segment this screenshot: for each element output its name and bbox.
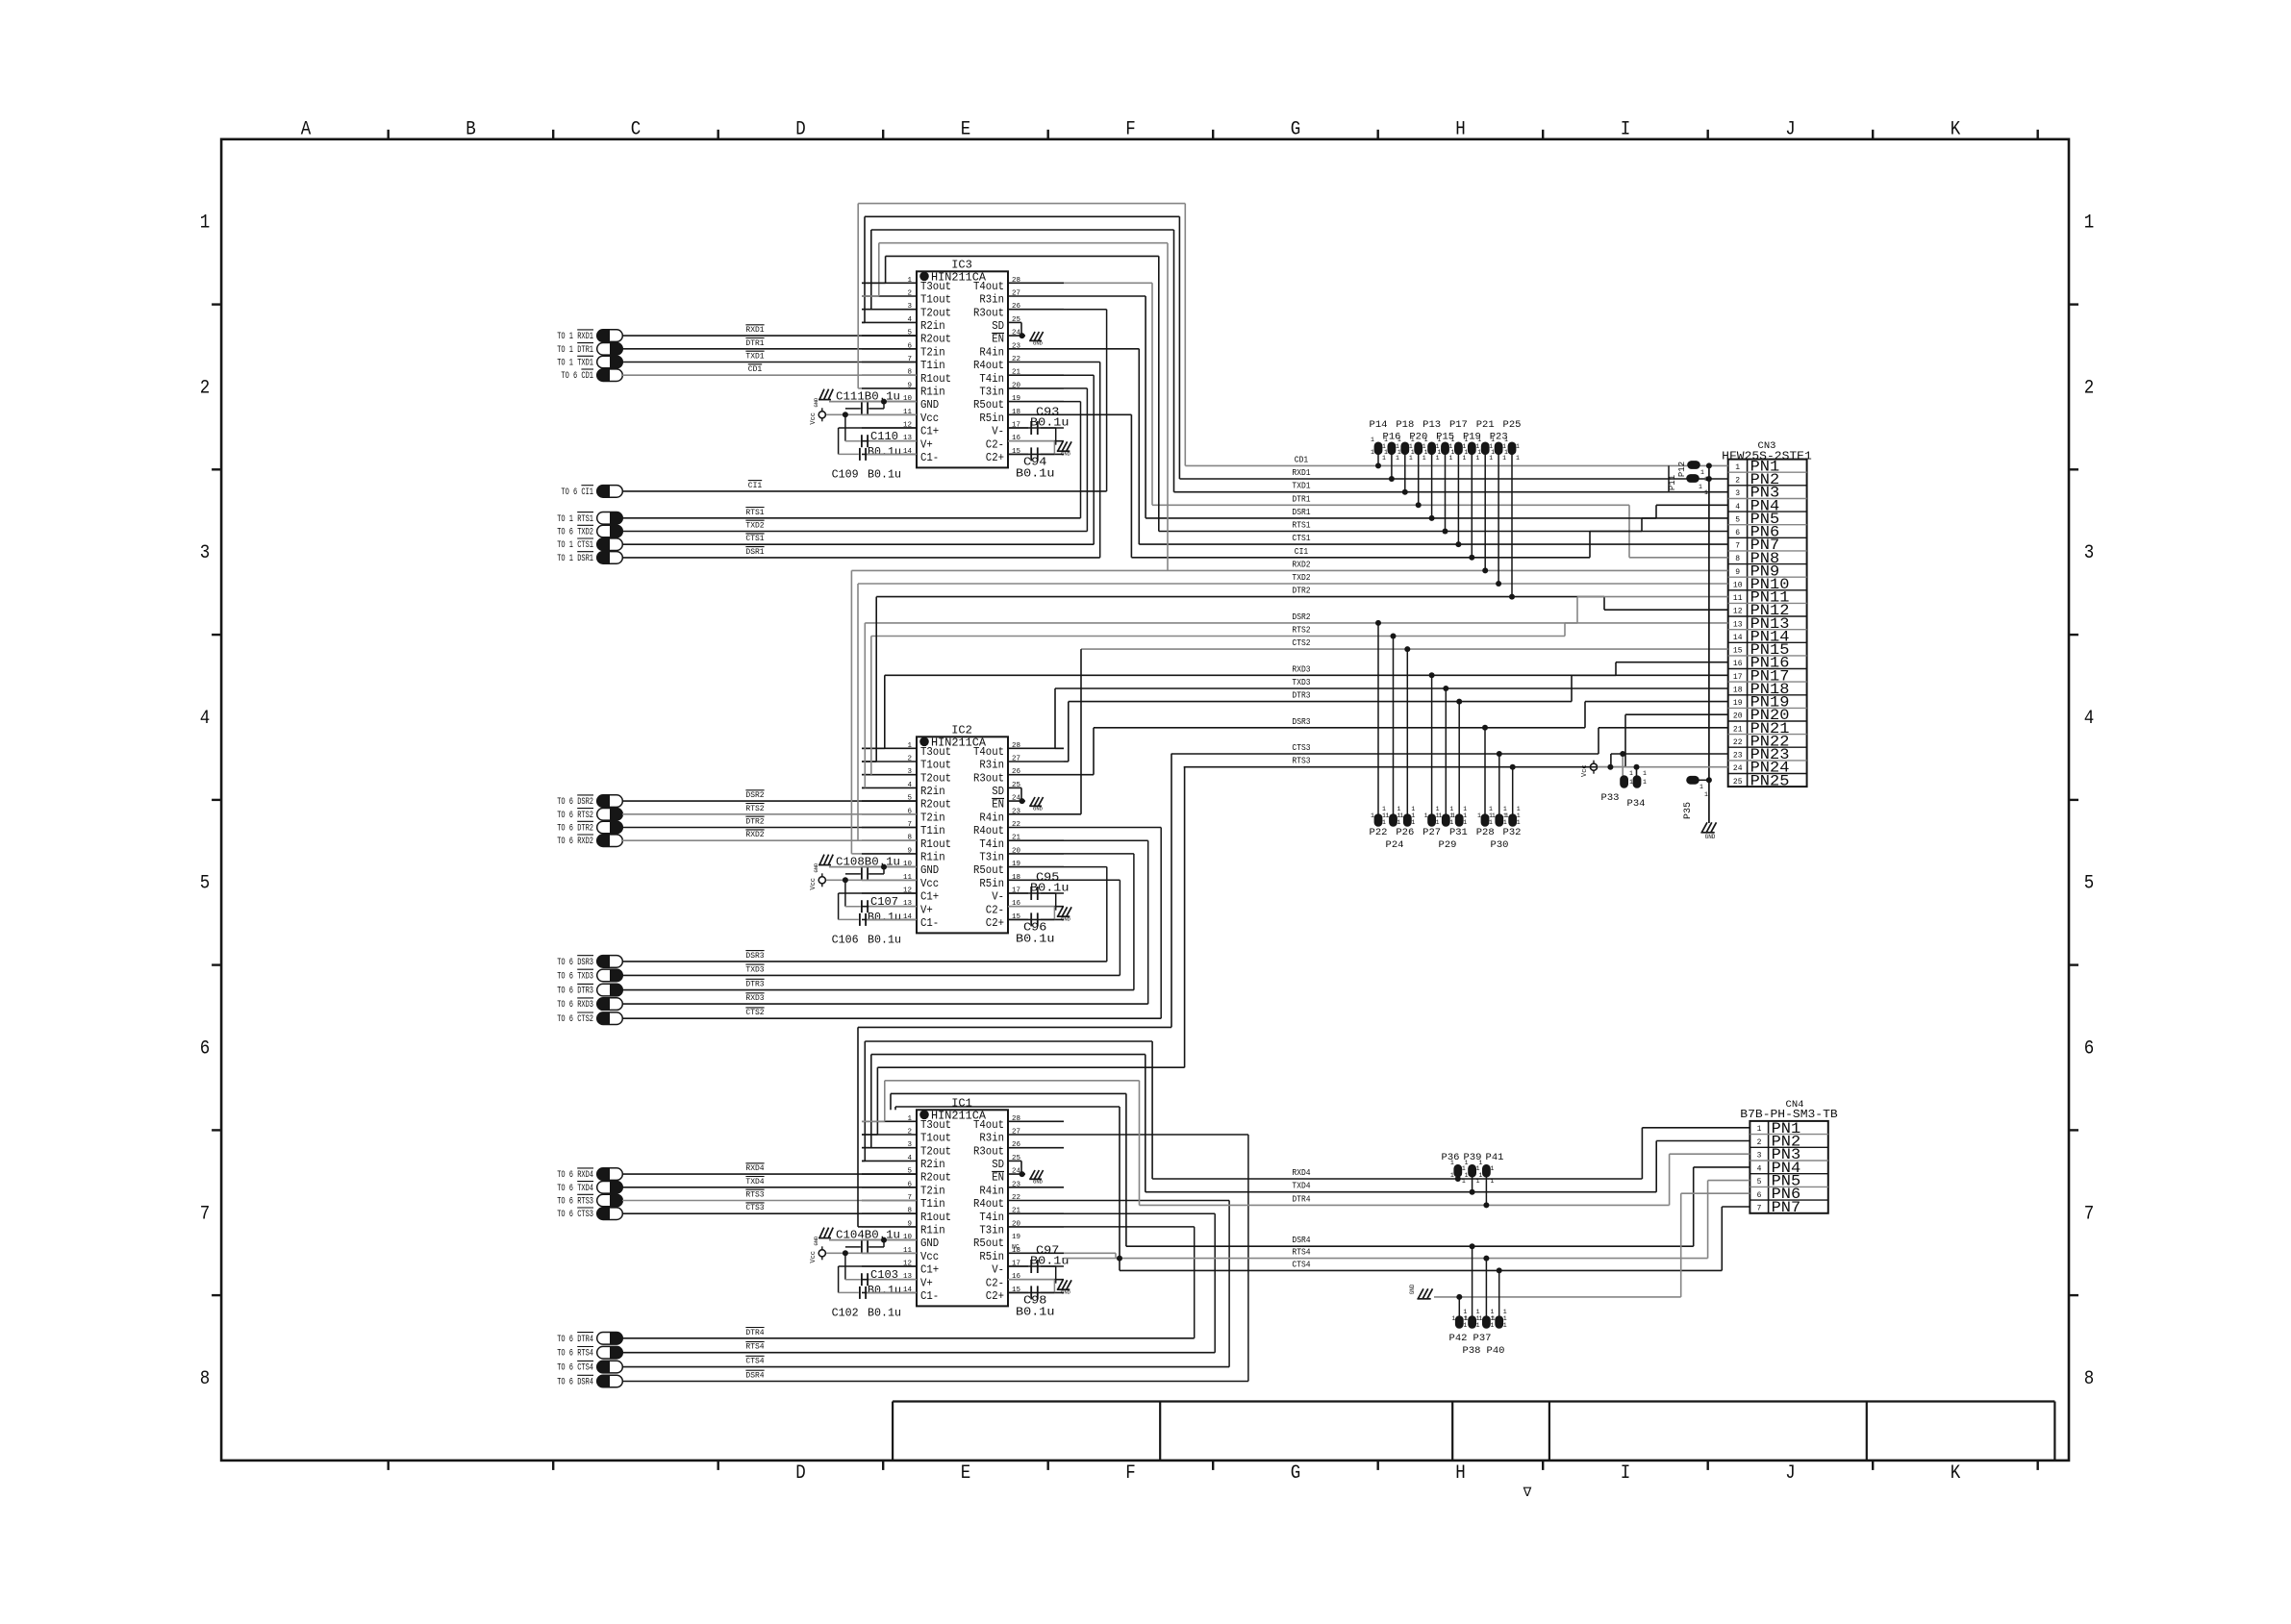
svg-text:T2in: T2in — [920, 1184, 945, 1197]
svg-text:TO 6 CI1: TO 6 CI1 — [561, 487, 593, 498]
svg-text:GND: GND — [1409, 1284, 1416, 1294]
svg-text:DSR2: DSR2 — [745, 791, 764, 800]
svg-text:C1+: C1+ — [920, 1263, 939, 1277]
svg-text:K: K — [1951, 119, 1961, 141]
svg-text:4: 4 — [907, 782, 912, 789]
svg-text:1: 1 — [2084, 212, 2095, 235]
svg-text:1: 1 — [1463, 806, 1467, 812]
svg-text:V-: V- — [992, 890, 1004, 904]
svg-text:R3in: R3in — [979, 1132, 1004, 1145]
svg-text:Vcc: Vcc — [810, 1251, 818, 1263]
svg-text:F: F — [1125, 1462, 1136, 1485]
svg-text:1: 1 — [1382, 455, 1386, 462]
svg-text:K: K — [1951, 1462, 1961, 1485]
svg-text:P32: P32 — [1503, 827, 1522, 838]
svg-text:C108B0.1u: C108B0.1u — [836, 857, 900, 869]
svg-text:9: 9 — [907, 1220, 912, 1228]
svg-text:5: 5 — [2084, 873, 2095, 895]
svg-text:R4out: R4out — [973, 824, 1004, 837]
svg-text:1: 1 — [1449, 455, 1453, 462]
svg-text:1: 1 — [1449, 819, 1453, 826]
svg-text:18: 18 — [1733, 687, 1743, 695]
svg-text:C: C — [631, 119, 642, 141]
svg-text:1: 1 — [1438, 812, 1442, 819]
svg-text:9: 9 — [1735, 568, 1740, 577]
svg-text:GND: GND — [1033, 340, 1044, 347]
svg-text:14: 14 — [1733, 634, 1743, 642]
svg-text:GND: GND — [813, 1236, 819, 1246]
svg-text:T2in: T2in — [920, 345, 945, 359]
svg-text:1: 1 — [1462, 1165, 1466, 1172]
svg-text:P38: P38 — [1463, 1345, 1481, 1357]
svg-text:J: J — [1785, 119, 1796, 141]
svg-text:Vcc: Vcc — [920, 877, 939, 890]
svg-text:DTR4: DTR4 — [745, 1329, 764, 1337]
svg-text:RTS1: RTS1 — [1292, 521, 1310, 531]
svg-text:2: 2 — [2084, 377, 2095, 399]
svg-text:P27: P27 — [1422, 827, 1441, 838]
svg-text:SD: SD — [992, 1158, 1004, 1171]
svg-text:1: 1 — [1489, 806, 1493, 812]
svg-text:25: 25 — [1733, 778, 1743, 787]
svg-text:1: 1 — [1371, 812, 1374, 819]
svg-text:P33: P33 — [1601, 792, 1620, 804]
svg-text:TO 1 DSR1: TO 1 DSR1 — [557, 554, 593, 564]
svg-text:IC3: IC3 — [951, 258, 972, 271]
svg-text:GND: GND — [1061, 451, 1071, 458]
svg-text:1: 1 — [1465, 1172, 1469, 1179]
svg-text:3: 3 — [907, 1141, 912, 1149]
svg-text:CTS1: CTS1 — [1292, 534, 1310, 543]
svg-text:6: 6 — [200, 1038, 211, 1061]
svg-text:T3in: T3in — [979, 1224, 1004, 1237]
svg-text:CTS4: CTS4 — [745, 1358, 764, 1366]
svg-text:J: J — [1785, 1462, 1796, 1485]
svg-text:1: 1 — [1517, 819, 1521, 826]
svg-text:T1in: T1in — [920, 359, 945, 372]
svg-text:5: 5 — [1735, 515, 1740, 524]
svg-text:DTR3: DTR3 — [1292, 691, 1310, 701]
svg-text:TO 6 DSR4: TO 6 DSR4 — [557, 1378, 593, 1388]
svg-text:C1-: C1- — [920, 451, 939, 464]
svg-text:T2in: T2in — [920, 811, 945, 824]
svg-text:R4in: R4in — [979, 345, 1004, 359]
svg-text:PN25: PN25 — [1750, 772, 1790, 789]
svg-text:CTS2: CTS2 — [745, 1009, 764, 1017]
svg-text:V+: V+ — [920, 903, 933, 916]
svg-text:P19: P19 — [1463, 432, 1481, 443]
svg-text:B0.1u: B0.1u — [868, 934, 901, 946]
svg-text:CI1: CI1 — [748, 482, 763, 490]
svg-text:C2+: C2+ — [986, 916, 1004, 930]
svg-text:1: 1 — [1477, 812, 1481, 819]
svg-text:EN: EN — [992, 1171, 1004, 1185]
svg-text:P31: P31 — [1449, 827, 1468, 838]
svg-text:1: 1 — [1465, 1315, 1469, 1322]
svg-text:TO 1 RXD1: TO 1 RXD1 — [557, 332, 593, 342]
svg-text:R1out: R1out — [920, 372, 951, 386]
svg-text:P17: P17 — [1449, 419, 1468, 431]
svg-text:B0.1u: B0.1u — [868, 912, 901, 924]
svg-text:RXD1: RXD1 — [1292, 468, 1310, 478]
svg-text:T1in: T1in — [920, 1197, 945, 1211]
svg-text:1: 1 — [1699, 784, 1703, 790]
svg-text:1: 1 — [1411, 819, 1415, 826]
svg-text:T3in: T3in — [979, 851, 1004, 864]
svg-text:1: 1 — [1492, 1315, 1496, 1322]
svg-text:1: 1 — [200, 212, 211, 235]
svg-text:E: E — [961, 119, 971, 141]
svg-text:Vcc: Vcc — [1581, 764, 1589, 777]
svg-text:R4out: R4out — [973, 1197, 1004, 1211]
svg-text:TXD3: TXD3 — [1292, 678, 1310, 687]
svg-text:PN7: PN7 — [1772, 1199, 1801, 1216]
svg-text:1: 1 — [1490, 1165, 1494, 1172]
svg-text:TO 6 TXD3: TO 6 TXD3 — [557, 971, 593, 982]
svg-text:DSR4: DSR4 — [1292, 1236, 1310, 1245]
svg-text:DSR4: DSR4 — [745, 1372, 764, 1381]
svg-text:T1out: T1out — [920, 1132, 951, 1145]
svg-text:CTS1: CTS1 — [745, 535, 764, 543]
svg-text:T2out: T2out — [920, 306, 951, 319]
svg-text:1: 1 — [1492, 812, 1496, 819]
svg-text:RXD3: RXD3 — [745, 994, 764, 1003]
svg-text:C1-: C1- — [920, 916, 939, 930]
svg-text:1: 1 — [1396, 455, 1399, 462]
svg-text:1: 1 — [1382, 819, 1386, 826]
svg-text:H: H — [1455, 119, 1466, 141]
svg-text:11: 11 — [1733, 594, 1743, 603]
svg-text:1: 1 — [1502, 455, 1506, 462]
svg-text:C2-: C2- — [986, 437, 1004, 451]
svg-text:20: 20 — [1733, 712, 1743, 721]
svg-text:9: 9 — [907, 847, 912, 855]
svg-text:TO 6 TXD2: TO 6 TXD2 — [557, 528, 593, 538]
svg-text:CTS2: CTS2 — [1292, 638, 1310, 648]
svg-text:R2out: R2out — [920, 798, 951, 812]
svg-text:1: 1 — [1476, 1165, 1480, 1172]
svg-text:1: 1 — [1464, 449, 1468, 456]
svg-text:1: 1 — [1490, 1309, 1494, 1315]
svg-text:P25: P25 — [1503, 419, 1522, 431]
svg-text:T3out: T3out — [920, 745, 951, 759]
svg-text:R5out: R5out — [973, 863, 1004, 877]
svg-text:1: 1 — [1629, 770, 1633, 777]
svg-text:P23: P23 — [1490, 432, 1508, 443]
svg-text:TO 6 RTS2: TO 6 RTS2 — [557, 811, 593, 821]
svg-text:R1in: R1in — [920, 1224, 945, 1237]
svg-text:P40: P40 — [1487, 1345, 1505, 1357]
svg-text:DTR3: DTR3 — [745, 981, 764, 989]
svg-text:P22: P22 — [1370, 827, 1388, 838]
svg-text:TO 6 DSR2: TO 6 DSR2 — [557, 797, 593, 808]
svg-text:CD1: CD1 — [1295, 455, 1308, 464]
svg-text:TXD4: TXD4 — [1292, 1182, 1310, 1191]
svg-text:1: 1 — [1476, 1178, 1480, 1185]
svg-text:19: 19 — [1733, 699, 1743, 708]
svg-text:B0.1u: B0.1u — [868, 446, 901, 459]
svg-text:TO 6 TXD4: TO 6 TXD4 — [557, 1184, 593, 1194]
svg-text:HFW25S-2STE1: HFW25S-2STE1 — [1722, 450, 1812, 463]
svg-text:CI1: CI1 — [1295, 547, 1308, 557]
svg-text:B0.1u: B0.1u — [1016, 933, 1055, 945]
svg-text:TO 1 CTS1: TO 1 CTS1 — [557, 540, 593, 551]
svg-text:A: A — [301, 119, 312, 141]
svg-text:RTS3: RTS3 — [745, 1191, 764, 1200]
svg-text:16: 16 — [1733, 660, 1743, 668]
svg-text:1: 1 — [1516, 443, 1520, 450]
svg-text:T4in: T4in — [979, 1211, 1004, 1224]
svg-text:B0.1u: B0.1u — [868, 468, 901, 481]
svg-text:GND: GND — [813, 397, 819, 408]
svg-text:C102: C102 — [832, 1307, 859, 1319]
svg-text:1: 1 — [907, 742, 912, 750]
svg-text:R3in: R3in — [979, 759, 1004, 772]
svg-text:TO 6 RXD3: TO 6 RXD3 — [557, 1000, 593, 1011]
svg-text:B0.1u: B0.1u — [868, 1307, 901, 1319]
svg-text:1: 1 — [1371, 437, 1374, 443]
svg-text:1: 1 — [1503, 806, 1507, 812]
svg-text:CTS3: CTS3 — [745, 1204, 764, 1212]
svg-text:TO 1 RTS1: TO 1 RTS1 — [557, 514, 593, 525]
svg-text:2: 2 — [907, 290, 912, 298]
svg-text:1: 1 — [1700, 469, 1704, 476]
svg-text:C2-: C2- — [986, 903, 1004, 916]
svg-text:C107: C107 — [870, 896, 898, 909]
svg-text:7: 7 — [1735, 542, 1740, 551]
svg-text:B0.1u: B0.1u — [1030, 883, 1070, 895]
svg-text:TO 6 DTR2: TO 6 DTR2 — [557, 824, 593, 835]
svg-text:RTS4: RTS4 — [1292, 1248, 1310, 1258]
svg-text:GND: GND — [1705, 834, 1716, 840]
svg-text:1: 1 — [1424, 449, 1428, 456]
svg-text:P29: P29 — [1439, 839, 1457, 851]
svg-text:1: 1 — [1384, 449, 1388, 456]
svg-text:T2out: T2out — [920, 771, 951, 785]
svg-text:P26: P26 — [1396, 827, 1414, 838]
svg-text:1: 1 — [1451, 812, 1455, 819]
svg-text:RXD2: RXD2 — [745, 831, 764, 839]
svg-text:I: I — [1621, 1462, 1631, 1485]
svg-text:G: G — [1291, 1462, 1301, 1485]
svg-text:2: 2 — [200, 377, 211, 399]
svg-text:13: 13 — [1733, 620, 1743, 629]
svg-text:I: I — [1621, 119, 1631, 141]
svg-text:C104B0.1u: C104B0.1u — [836, 1230, 900, 1242]
svg-text:3: 3 — [907, 303, 912, 311]
svg-text:R1in: R1in — [920, 386, 945, 399]
svg-text:R2in: R2in — [920, 1158, 945, 1171]
svg-text:3: 3 — [1757, 1152, 1762, 1161]
svg-text:1: 1 — [1735, 463, 1740, 472]
svg-text:RTS2: RTS2 — [745, 805, 764, 813]
svg-text:R5in: R5in — [979, 877, 1004, 890]
svg-text:R1in: R1in — [920, 851, 945, 864]
svg-text:4: 4 — [2084, 708, 2095, 730]
svg-text:RXD3: RXD3 — [1292, 664, 1310, 674]
svg-text:P41: P41 — [1486, 1152, 1504, 1163]
svg-text:P24: P24 — [1386, 839, 1404, 851]
svg-text:1: 1 — [1516, 455, 1520, 462]
svg-text:6: 6 — [1735, 529, 1740, 537]
svg-text:R2in: R2in — [920, 319, 945, 333]
svg-text:B0.1u: B0.1u — [1030, 1256, 1070, 1268]
svg-text:R5out: R5out — [973, 398, 1004, 412]
svg-text:GND: GND — [1061, 1289, 1071, 1296]
svg-text:6: 6 — [1757, 1191, 1762, 1200]
svg-text:1: 1 — [1411, 449, 1415, 456]
svg-text:TO 6 RXD2: TO 6 RXD2 — [557, 837, 593, 847]
svg-text:R5out: R5out — [973, 1237, 1004, 1250]
svg-text:1: 1 — [1477, 449, 1481, 456]
svg-text:1: 1 — [1463, 812, 1467, 819]
svg-text:TO 6 RTS3: TO 6 RTS3 — [557, 1197, 593, 1208]
svg-text:P14: P14 — [1370, 419, 1388, 431]
svg-text:1: 1 — [1436, 455, 1440, 462]
svg-text:1: 1 — [1386, 812, 1390, 819]
svg-text:1: 1 — [907, 1115, 912, 1123]
svg-text:B0.1u: B0.1u — [1016, 1306, 1055, 1318]
svg-text:1: 1 — [1699, 484, 1702, 490]
svg-text:P28: P28 — [1476, 827, 1495, 838]
svg-text:1: 1 — [1476, 1322, 1480, 1329]
svg-text:SD: SD — [992, 319, 1004, 333]
svg-text:1: 1 — [1436, 806, 1440, 812]
svg-text:1: 1 — [1397, 449, 1401, 456]
svg-text:C106: C106 — [832, 934, 859, 946]
svg-text:19: 19 — [1012, 1234, 1020, 1241]
svg-text:D: D — [795, 119, 806, 141]
svg-text:P21: P21 — [1476, 419, 1495, 431]
svg-text:TO 6 DTR3: TO 6 DTR3 — [557, 987, 593, 997]
svg-text:1: 1 — [1463, 1322, 1467, 1329]
svg-text:RXD4: RXD4 — [1292, 1168, 1310, 1178]
svg-text:GND: GND — [920, 1237, 939, 1250]
svg-text:TO 6 CTS4: TO 6 CTS4 — [557, 1363, 593, 1374]
svg-text:15: 15 — [1733, 647, 1743, 656]
svg-text:TXD3: TXD3 — [745, 965, 764, 974]
svg-text:DSR3: DSR3 — [745, 952, 764, 961]
svg-text:RXD4: RXD4 — [745, 1164, 764, 1173]
svg-text:1: 1 — [1503, 1315, 1507, 1322]
svg-text:TO 1 DTR1: TO 1 DTR1 — [557, 345, 593, 356]
svg-text:T3in: T3in — [979, 386, 1004, 399]
svg-text:T4out: T4out — [973, 280, 1004, 293]
svg-text:2: 2 — [1735, 477, 1740, 486]
svg-text:T1out: T1out — [920, 293, 951, 307]
svg-text:T4in: T4in — [979, 372, 1004, 386]
svg-text:1: 1 — [1462, 455, 1466, 462]
svg-text:CD1: CD1 — [748, 365, 763, 374]
svg-text:Vcc: Vcc — [920, 1250, 939, 1263]
svg-text:T3out: T3out — [920, 1118, 951, 1132]
svg-text:T2out: T2out — [920, 1144, 951, 1158]
svg-text:CTS3: CTS3 — [1292, 743, 1310, 753]
svg-text:R5in: R5in — [979, 1250, 1004, 1263]
svg-text:4: 4 — [907, 316, 912, 324]
svg-text:21: 21 — [1733, 725, 1743, 734]
svg-text:7: 7 — [1757, 1205, 1762, 1213]
svg-text:DSR1: DSR1 — [1292, 508, 1310, 517]
svg-text:B0.1u: B0.1u — [1016, 467, 1055, 480]
svg-text:4: 4 — [1735, 503, 1740, 512]
svg-text:RTS3: RTS3 — [1292, 757, 1310, 766]
svg-text:CTS4: CTS4 — [1292, 1260, 1310, 1269]
svg-text:3: 3 — [1735, 489, 1740, 498]
svg-text:5: 5 — [1757, 1178, 1762, 1187]
svg-text:TXD1: TXD1 — [1292, 482, 1310, 491]
svg-text:1: 1 — [1490, 1178, 1494, 1185]
svg-text:GND: GND — [1033, 1179, 1044, 1186]
svg-text:1: 1 — [1409, 455, 1413, 462]
svg-text:RXD1: RXD1 — [745, 326, 764, 335]
svg-text:22: 22 — [1733, 738, 1743, 747]
svg-text:1: 1 — [1422, 455, 1426, 462]
svg-text:1: 1 — [1411, 806, 1415, 812]
svg-text:Vcc: Vcc — [920, 412, 939, 425]
svg-text:D: D — [795, 1462, 806, 1485]
svg-text:1: 1 — [1411, 812, 1415, 819]
svg-text:R2out: R2out — [920, 333, 951, 346]
svg-text:GND: GND — [1061, 916, 1071, 923]
svg-text:6: 6 — [2084, 1038, 2095, 1061]
svg-text:P16: P16 — [1383, 432, 1401, 443]
svg-text:RTS2: RTS2 — [1292, 626, 1310, 636]
svg-text:R3in: R3in — [979, 293, 1004, 307]
svg-text:1: 1 — [1503, 1309, 1507, 1315]
svg-text:1: 1 — [1478, 1315, 1482, 1322]
svg-text:2: 2 — [907, 1129, 912, 1137]
svg-text:P30: P30 — [1491, 839, 1509, 851]
svg-text:T1out: T1out — [920, 759, 951, 772]
svg-text:P42: P42 — [1449, 1333, 1468, 1344]
svg-text:1: 1 — [1463, 1309, 1467, 1315]
svg-text:3: 3 — [200, 542, 211, 564]
svg-text:GND: GND — [1033, 806, 1044, 812]
svg-text:E: E — [961, 1462, 971, 1485]
svg-text:T1in: T1in — [920, 824, 945, 837]
svg-text:C1+: C1+ — [920, 890, 939, 904]
svg-text:P15: P15 — [1436, 432, 1454, 443]
svg-text:1: 1 — [1643, 779, 1647, 786]
svg-text:V+: V+ — [920, 1276, 933, 1289]
svg-text:1: 1 — [1643, 770, 1647, 777]
svg-text:R4out: R4out — [973, 359, 1004, 372]
svg-text:SD: SD — [992, 785, 1004, 798]
svg-text:V+: V+ — [920, 437, 933, 451]
svg-text:TO 6 CD1: TO 6 CD1 — [561, 371, 593, 382]
svg-text:R1out: R1out — [920, 1211, 951, 1224]
svg-text:C111B0.1u: C111B0.1u — [836, 391, 900, 404]
svg-text:1: 1 — [1704, 791, 1708, 798]
svg-text:P20: P20 — [1409, 432, 1427, 443]
svg-text:G: G — [1291, 119, 1301, 141]
svg-text:C109: C109 — [832, 468, 859, 481]
svg-text:9: 9 — [907, 382, 912, 389]
svg-text:IC1: IC1 — [951, 1096, 972, 1110]
svg-text:1: 1 — [1629, 779, 1633, 786]
svg-text:2: 2 — [1757, 1138, 1762, 1147]
svg-text:TXD1: TXD1 — [745, 353, 764, 362]
svg-text:∇: ∇ — [1523, 1486, 1532, 1500]
svg-text:GND: GND — [920, 863, 939, 877]
svg-text:R4in: R4in — [979, 1184, 1004, 1197]
svg-text:Vcc: Vcc — [810, 412, 818, 425]
svg-text:1: 1 — [1449, 806, 1453, 812]
svg-text:TXD2: TXD2 — [745, 522, 764, 531]
svg-text:DSR2: DSR2 — [1292, 612, 1310, 622]
svg-text:12: 12 — [1733, 608, 1743, 616]
